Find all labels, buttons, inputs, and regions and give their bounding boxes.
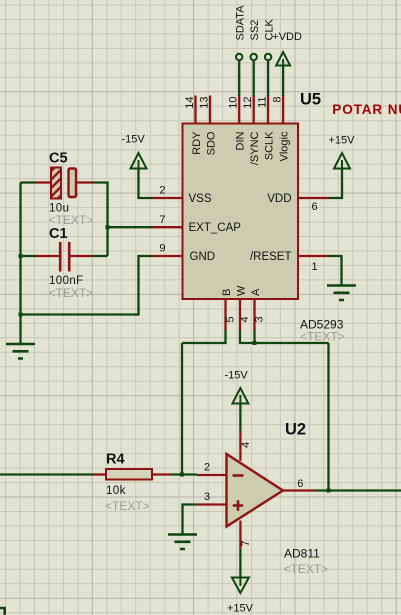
- svg-text:1: 1: [312, 261, 318, 273]
- pin 7 stub (left of U5): [153, 226, 183, 228]
- wire to left ground: [19, 315, 21, 345]
- svg-text:-15V: -15V: [122, 134, 146, 146]
- svg-text:SCLK: SCLK: [264, 131, 276, 160]
- pin 11 stub (top of U5): [267, 96, 269, 124]
- svg-text:<TEXT>: <TEXT>: [284, 562, 329, 576]
- wire EXT_CAP pin 7: [108, 226, 153, 228]
- svg-text:SS2: SS2: [249, 20, 261, 41]
- wire SDATA to pin: [238, 61, 240, 96]
- pin 6 stub op-amp output: [283, 489, 315, 491]
- wire GND pin 9 down-left: [21, 256, 153, 315]
- svg-text:<TEXT>: <TEXT>: [105, 499, 150, 513]
- pin 5 stub (bottom of U5, B): [224, 299, 226, 331]
- power flag +15V (right): [334, 153, 350, 169]
- pin 2 stub op-amp: [197, 474, 227, 476]
- wire C1 to vertical: [93, 255, 108, 257]
- wire C1 left lead (green): [21, 255, 37, 257]
- op-amp minus sign: [233, 474, 244, 477]
- wire pin W right: [240, 331, 329, 344]
- wire input from left edge: [0, 473, 93, 475]
- svg-text:6: 6: [312, 201, 318, 213]
- svg-text:SDO: SDO: [206, 131, 218, 155]
- op-amp plus sign: [233, 500, 243, 511]
- svg-text:POTAR NUM: POTAR NUM: [332, 102, 401, 117]
- svg-text:Vlogic: Vlogic: [279, 131, 291, 161]
- capacitor C1 left lead: [36, 255, 59, 257]
- terminal SDATA: [236, 54, 242, 60]
- svg-text:10k: 10k: [106, 485, 126, 497]
- svg-text:C5: C5: [49, 151, 68, 167]
- junction A node: [253, 341, 257, 345]
- svg-text:VSS: VSS: [189, 193, 212, 205]
- svg-text:/SYNC: /SYNC: [249, 131, 261, 165]
- svg-text:DIN: DIN: [235, 131, 247, 150]
- svg-text:9: 9: [159, 243, 165, 255]
- svg-text:R4: R4: [106, 452, 125, 468]
- wire pin B down-left to feedback column: [182, 331, 226, 344]
- ground (op-amp): [168, 535, 197, 550]
- svg-text:4: 4: [240, 442, 252, 448]
- svg-text:+15V: +15V: [329, 135, 356, 147]
- power flag +VDD: [276, 52, 290, 66]
- wire CLK to pin: [267, 61, 269, 96]
- power flag +15V (bottom): [232, 578, 249, 594]
- pin 12 stub (top of U5): [253, 96, 255, 124]
- wire /RESET pin 1 to ground: [329, 256, 342, 286]
- svg-text:2: 2: [159, 185, 165, 197]
- wire left bus vertical: [19, 183, 21, 316]
- terminal CLK: [265, 54, 271, 60]
- junction C1 left node: [19, 254, 23, 258]
- svg-text:13: 13: [199, 97, 211, 109]
- wire right column to op-amp output: [327, 343, 329, 491]
- pin 8 stub (top of U5): [282, 96, 284, 124]
- svg-text:11: 11: [257, 97, 269, 108]
- capacitor C1 plates: [59, 242, 62, 272]
- pin 9 stub (left of U5): [153, 255, 183, 257]
- wire VDD pin 6 to +15V: [329, 169, 343, 199]
- svg-text:+15V: +15V: [227, 603, 254, 615]
- IC U5 AD5293 body: [183, 124, 299, 300]
- op-amp U2 body: [227, 454, 284, 527]
- svg-text:VDD: VDD: [267, 193, 291, 205]
- svg-text:-15V: -15V: [225, 370, 249, 382]
- pin 6 stub (right of U5): [298, 197, 329, 199]
- svg-text:3: 3: [254, 316, 266, 322]
- pin 10 stub (top of U5): [238, 96, 240, 124]
- svg-text:U5: U5: [300, 91, 321, 109]
- wire C5 left lead (green): [21, 181, 37, 183]
- wire SS2 to pin: [253, 61, 255, 96]
- wire feedback column left (to op-amp pin 2): [181, 343, 183, 475]
- wire C5 to vertical: [93, 183, 108, 257]
- wire pin 3 to ground: [183, 505, 198, 535]
- power flag -15V (op-amp): [232, 388, 248, 404]
- svg-text:2: 2: [204, 462, 210, 474]
- capacitor C5 left lead: [36, 181, 51, 183]
- svg-text:7: 7: [159, 214, 165, 226]
- resistor R4 body: [106, 469, 152, 480]
- svg-text:<TEXT>: <TEXT>: [300, 330, 345, 344]
- capacitor C5 right plate: [69, 169, 77, 198]
- wire output to right: [315, 489, 401, 491]
- svg-text:+VDD: +VDD: [272, 31, 302, 43]
- svg-text:6: 6: [297, 478, 303, 490]
- resistor R4 left lead: [93, 473, 106, 475]
- svg-text:U2: U2: [285, 421, 306, 439]
- terminal SS2: [251, 54, 257, 60]
- pin 2 stub (left of U5): [153, 197, 183, 199]
- svg-text:GND: GND: [190, 251, 216, 263]
- pin 1 stub (right of U5): [298, 255, 329, 257]
- pin 14 stub (top of U5): [194, 96, 196, 124]
- junction R4 / feedback node: [180, 473, 184, 477]
- svg-text:14: 14: [184, 97, 196, 109]
- svg-text:5: 5: [225, 316, 237, 322]
- wire fragment bottom-left corner: [0, 608, 5, 615]
- svg-text:<TEXT>: <TEXT>: [49, 213, 94, 227]
- wire +VDD to pin 8: [282, 66, 284, 97]
- svg-text:10: 10: [228, 97, 240, 109]
- wire pin A joins: [253, 331, 255, 344]
- junction EXT_CAP node: [106, 225, 110, 229]
- junction output node: [327, 489, 331, 493]
- svg-text:<TEXT>: <TEXT>: [49, 286, 94, 300]
- ground (right): [327, 286, 356, 301]
- svg-text:4: 4: [239, 316, 251, 322]
- svg-text:RDY: RDY: [191, 131, 203, 155]
- wire R4 to op-amp pin 2: [171, 473, 197, 475]
- wire -15V to VSS pin 2: [139, 169, 153, 199]
- svg-text:C1: C1: [49, 226, 68, 242]
- pin 3 stub op-amp: [197, 503, 227, 505]
- pin 4 stub op-amp (V-): [239, 432, 241, 461]
- wire pin 4 to -15V: [239, 404, 241, 432]
- svg-text:EXT_CAP: EXT_CAP: [189, 222, 242, 234]
- svg-text:W: W: [236, 285, 248, 296]
- ground (left): [6, 344, 35, 359]
- pin 13 stub (top of U5): [209, 96, 211, 124]
- svg-text:3: 3: [204, 491, 210, 503]
- pin 7 stub op-amp (V+): [239, 521, 241, 550]
- junction left ground node: [19, 313, 23, 317]
- capacitor C5 right lead: [76, 181, 93, 183]
- svg-text:AD811: AD811: [284, 547, 320, 561]
- capacitor C1 right lead: [71, 255, 94, 257]
- power flag -15V (upper): [131, 153, 147, 169]
- pin 3 stub (bottom of U5, A): [253, 299, 255, 331]
- pin 4 stub (bottom of U5, W): [239, 299, 241, 331]
- svg-text:SDATA: SDATA: [235, 5, 247, 41]
- svg-text:12: 12: [242, 97, 254, 109]
- svg-text:/RESET: /RESET: [250, 251, 292, 263]
- svg-text:A: A: [250, 288, 262, 296]
- svg-text:7: 7: [240, 540, 252, 546]
- wire pin 7 to +15V: [239, 550, 241, 578]
- svg-text:8: 8: [272, 97, 284, 103]
- resistor R4 right lead: [152, 473, 171, 475]
- svg-text:B: B: [221, 289, 233, 296]
